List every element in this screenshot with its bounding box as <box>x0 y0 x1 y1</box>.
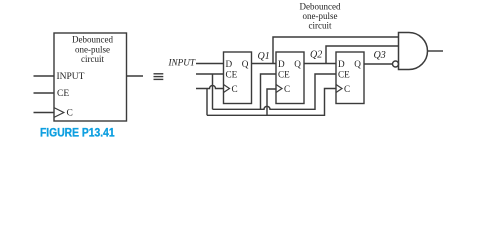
block U0: debounced one-pulse circuit (left box) <box>54 33 127 121</box>
svg-text:Q: Q <box>294 59 301 69</box>
svg-text:C: C <box>67 109 73 119</box>
wire: C clock stub into block U0 <box>34 112 55 114</box>
wire: FF2 clock riser <box>267 89 276 115</box>
svg-text:C: C <box>232 84 238 94</box>
wire: CE input to FF1 CE <box>196 73 224 75</box>
wire: block U0 output stub <box>127 75 144 77</box>
wire: clock drop <box>206 89 208 116</box>
flip-flop U1 <box>224 52 252 104</box>
svg-text:FIGURE P13.41: FIGURE P13.41 <box>40 127 115 140</box>
svg-text:C: C <box>344 84 350 94</box>
wire: Q1 branch to AND gate top input <box>273 37 399 64</box>
equivalence symbol <box>154 74 164 80</box>
wire: Q3 from FF3 to inversion bubble <box>364 63 393 65</box>
svg-text:CE: CE <box>278 69 290 79</box>
wire: CE rail with hop over FF2 clock riser, riser to FF3 CE <box>213 74 337 109</box>
svg-text:one-pulse: one-pulse <box>75 44 110 54</box>
svg-text:C: C <box>284 84 290 94</box>
svg-text:CE: CE <box>57 89 69 99</box>
wire: AND gate output <box>428 50 444 52</box>
svg-text:INPUT: INPUT <box>57 72 85 82</box>
flip-flop U3 <box>336 52 364 104</box>
wire: INPUT to FF1 D <box>196 63 224 65</box>
svg-text:Q: Q <box>242 59 249 69</box>
wire: Q2 from FF2 to FF3 D <box>304 63 336 65</box>
svg-text:D: D <box>278 59 285 69</box>
svg-text:Q3: Q3 <box>374 50 386 61</box>
svg-text:CE: CE <box>226 69 238 79</box>
wire: clock input to FF1 C with hop over CE drop <box>196 86 224 89</box>
svg-text:Q2: Q2 <box>310 50 322 61</box>
wire: Q1 from FF1 to FF2 D <box>252 63 277 65</box>
inversion bubble on AND gate input <box>393 61 399 67</box>
clock triangle (block U0 C pin) <box>54 108 64 118</box>
svg-text:Debounced: Debounced <box>72 35 113 45</box>
AND gate U4 <box>399 33 428 70</box>
svg-text:CE: CE <box>338 69 350 79</box>
svg-text:Q1: Q1 <box>258 51 270 62</box>
svg-text:circuit: circuit <box>309 20 332 30</box>
wire: INPUT stub into block U0 <box>34 75 55 77</box>
svg-text:Q: Q <box>354 59 361 69</box>
wire: clock rail, riser to FF3 C <box>207 89 336 116</box>
wire: Q2 branch to AND gate middle input <box>326 46 399 64</box>
svg-text:circuit: circuit <box>81 54 104 64</box>
svg-text:INPUT: INPUT <box>167 58 196 68</box>
svg-text:Debounced: Debounced <box>300 2 341 12</box>
wire: CE drop (vertical through hop) <box>212 74 214 109</box>
svg-text:D: D <box>338 59 345 69</box>
flip-flop U2 <box>276 52 304 104</box>
svg-text:D: D <box>226 59 233 69</box>
wire: FF2 CE riser <box>261 74 277 109</box>
wire: CE stub into block U0 <box>34 92 55 94</box>
